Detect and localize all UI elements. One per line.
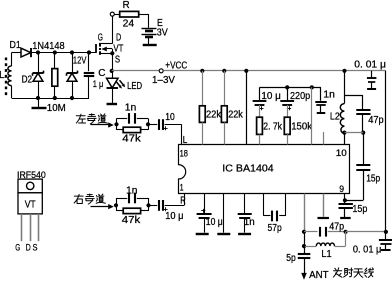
svg-text:10: 10 [165,112,175,123]
junction dot pin 9 node [343,198,347,202]
wire source to VCC node [112,49,114,71]
svg-text:2. 7k: 2. 7k [263,122,283,133]
wire bottom rail of protection block [12,98,89,100]
svg-text:10 μ: 10 μ [261,91,281,102]
wire pin 3 to ground [217,194,230,235]
svg-text:LED: LED [127,81,142,92]
svg-text:1N4148: 1N4148 [32,41,65,52]
wire tank to right rail [346,231,386,233]
wire pin9 node to 15p upper [345,200,363,202]
svg-text:15p: 15p [366,173,380,184]
svg-text:+VCC: +VCC [165,61,187,72]
resistor 22k pin17 [199,71,222,145]
svg-text:10M: 10M [47,103,66,114]
svg-text:3V: 3V [157,27,168,38]
svg-text:24: 24 [123,18,135,29]
capacitor 47p antenna tank [304,222,346,237]
svg-text:G: G [98,33,103,44]
junction dots bottom rail [36,96,74,100]
capacitor 1n on feedback bus with ground [315,87,335,113]
junction dots under L2 tank [342,131,365,135]
wire VCC to pin 15 [246,71,248,145]
junction dots right channel [114,203,151,207]
svg-text:S: S [115,54,120,65]
svg-text:10 μ: 10 μ [206,217,223,228]
battery E 3V [142,14,169,44]
svg-text:1n: 1n [126,186,138,197]
svg-text:VT: VT [25,200,36,211]
stub pin 11 (NC) [323,132,325,145]
ground under LED [107,103,118,105]
wire +VCC rail to right [163,70,386,72]
zener diode 12V [67,53,87,99]
svg-text:S: S [33,242,38,253]
wire pin 8 to ground [317,194,329,219]
capacitor 1n right channel [116,186,149,206]
capacitor 10 electrolytic left channel [148,112,182,130]
antenna output arrow ANT [301,258,373,281]
ground under battery E [143,44,157,46]
svg-text:D2: D2 [22,74,33,85]
svg-text:1n: 1n [323,89,335,100]
svg-text:12V: 12V [73,56,87,67]
zener diode D2 [22,53,44,99]
svg-text:0. 01 μ: 0. 01 μ [354,60,386,71]
diode D1 1N4148 [10,40,66,57]
svg-text:VT: VT [113,44,123,55]
svg-text:57p: 57p [268,223,283,234]
terminal circle at drain/R node [110,12,114,16]
svg-text:220p: 220p [290,91,311,102]
capacitor 57p between pins 5 and 6 [264,194,286,235]
capacitor 0.01u top right [354,60,386,89]
svg-text:18: 18 [180,149,188,160]
capacitor 10u and resistor 2.7k to pin 14 [253,87,283,144]
svg-text:47k: 47k [122,215,142,226]
wire bus to pin 12 [311,87,313,144]
capacitor 15p lower with ground [339,200,368,218]
wire top rail of protection block [12,52,97,54]
capacitor 220p and resistor 150k to pin 13 [280,87,313,144]
inductor L2 [330,71,345,134]
svg-text:9: 9 [339,184,344,195]
svg-text:10: 10 [336,148,347,159]
wire between tank junctions [304,232,306,246]
resistor 10M [52,53,58,99]
svg-text:1n: 1n [244,217,255,228]
junction dots left channel [114,122,150,126]
capacitor 1n left channel [117,102,149,124]
wire pin 9 down [344,194,346,201]
resistor R 24 [114,0,149,29]
capacitor 5p antenna coupling [286,246,310,264]
svg-text:1: 1 [180,182,184,193]
wire L2 to 47p bottom [344,132,363,134]
op-amp U1 IC BA1404 body [179,145,350,196]
svg-text:IC BA1404: IC BA1404 [222,164,274,175]
capacitor 0.01u right rail bottom [353,232,392,256]
wire tank to IC pin 10 [344,133,346,145]
junction dots antenna tank left [302,230,306,249]
svg-text:L2: L2 [330,112,340,123]
svg-text:22k: 22k [206,110,222,121]
capacitor 15p upper [356,133,380,201]
svg-text:15p: 15p [352,204,367,215]
label right channel input [74,194,114,209]
inductor L (pickup coil) with core dashes and label [0,53,12,99]
svg-text:150k: 150k [291,122,313,133]
capacitor 10u pin 2 to ground [196,194,223,235]
wire drain vertical [112,16,114,44]
svg-text:D: D [26,242,31,253]
wire pin 7 down to antenna tank [304,194,306,232]
resistor 47k right channel [116,205,149,226]
wire VCC node to +VCC terminal [112,70,160,72]
svg-text:47p: 47p [329,222,344,233]
svg-text:D1: D1 [10,40,22,51]
transistor VT IRF540 package drawing [15,170,46,254]
svg-text:L1: L1 [321,249,332,260]
wire top feedback bus [260,87,322,89]
capacitor C 1u [84,53,106,99]
junction dot tank right [344,230,348,234]
ground under protection block [32,98,66,114]
svg-text:5p: 5p [286,253,296,264]
wire to IC pin 18 with L label [182,124,188,146]
resistor 47k left channel [117,124,149,144]
svg-text:47k: 47k [122,133,142,144]
junction dots on feedback bus [285,85,314,89]
capacitor 1n pin 4 to ground [238,194,255,235]
svg-text:L: L [0,70,5,81]
svg-text:47p: 47p [368,115,384,126]
transistor VT MOSFET symbol [96,33,123,66]
svg-text:D: D [116,33,121,44]
junction dot at MOSFET source [110,51,114,55]
svg-text:1 μ: 1 μ [93,79,104,90]
svg-text:ANT: ANT [309,269,329,281]
svg-text:0. 01 μ: 0. 01 μ [353,245,382,256]
inductor L1 [304,232,346,260]
node junction dots on top rail [36,50,91,54]
svg-text:R: R [123,0,130,11]
resistor 22k pin16 [221,71,243,145]
svg-text:C: C [98,68,105,79]
svg-text:22k: 22k [228,110,244,121]
label left channel input [76,114,113,128]
capacitor 47p across L2 [344,95,384,132]
svg-text:10 μ: 10 μ [165,211,184,222]
capacitor 10u electrolytic right channel [149,200,185,222]
svg-text:G: G [15,242,20,253]
wire right rail [385,71,387,232]
wire to IC pin 1 with R label [180,194,186,207]
node +VCC junction dot [110,69,114,73]
junction dot right rail [384,230,388,234]
junction dots on VCC rail [200,69,346,73]
terminal circle +VCC with labels [152,61,187,86]
svg-text:1n: 1n [125,102,137,113]
svg-text:1–3V: 1–3V [152,75,175,86]
LED indicator [107,71,143,103]
svg-text:R: R [180,195,186,206]
